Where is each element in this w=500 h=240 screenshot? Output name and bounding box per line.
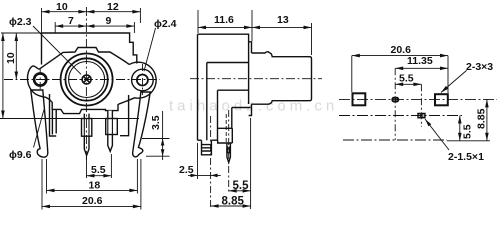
3.5 dim line [162,111,164,160]
side 8.85 arrows [211,204,219,208]
low slot pad [418,114,425,118]
2-1.5x1 leader [425,119,449,150]
dim row1 line 10/12 [42,11,141,13]
center contact pin [84,114,89,156]
2-3x3 leader [441,70,467,92]
5.5 fp dim line [395,83,421,85]
right ear hole outer circle [132,69,154,91]
fp 11.35 arrows [395,67,403,71]
svg-text:10: 10 [5,52,17,64]
side dim extensions [198,10,312,55]
5.5 dim line [87,175,112,177]
mid pad centerline [394,68,396,140]
front foot block with ribs [202,140,212,155]
pcb surface reference line [0,118,139,120]
fp 8.85 vertical dim line [486,99,488,140]
svg-text:5.5: 5.5 [233,180,250,192]
svg-text:7: 7 [68,15,74,27]
mid pad inner mark [395,98,397,101]
bracket left edge [41,33,43,65]
5.5 extensions [87,154,112,178]
svg-text:5.5: 5.5 [91,164,106,176]
20.6 dim line [42,205,141,207]
20.6 fp dim line [352,55,448,57]
barrel profile [252,52,312,104]
dim row1 extensions [42,8,141,33]
bracket arm top edge [232,107,251,109]
second pin [108,111,113,152]
20.6 fp extensions [352,56,448,93]
footprint axis 2 [339,115,462,117]
right pad 3x3 [435,94,448,105]
bracket arm step [218,108,233,144]
fp 20.6 arrows [352,54,360,58]
2.5 dim line [188,174,221,176]
low pad inner marks [420,114,423,118]
right ear outer lobe [118,62,156,104]
2.5 arrows outside [191,174,198,178]
phi9.6 dim line left [2,33,4,119]
11.35 fp dim line [395,67,448,69]
svg-text:5.5: 5.5 [399,73,414,85]
center pin sleeve [82,119,92,137]
side inner L [207,63,249,141]
svg-text:8.85: 8.85 [476,108,488,129]
svg-text:11.6: 11.6 [214,14,234,26]
mid slot pad [392,98,398,102]
low pad centerline [420,84,422,127]
svg-text:5.5: 5.5 [462,124,474,139]
svg-text:3.5: 3.5 [150,115,162,130]
left ear hole [34,73,46,85]
svg-text:9: 9 [106,15,112,27]
svg-text:2-3×3: 2-3×3 [466,61,493,73]
bottom ref line [447,140,490,142]
dimension lines thin [0,7,170,210]
front axis horizontal [4,79,160,81]
side 5.5 dim line [229,190,251,192]
18 arrows [47,189,55,193]
side centerline [190,78,322,80]
phi2.3 leader [33,26,81,74]
svg-text:2-1.5×1: 2-1.5×1 [448,151,484,163]
5.5 arrows [87,174,95,178]
3.5 dim extensions [142,139,170,157]
phi2.4 leader [144,28,156,71]
svg-text:ϕ9.6: ϕ9.6 [9,149,32,161]
bracket left edge below flange [50,94,57,136]
flange plate side [249,42,252,116]
side dim line 11.6/13 [198,26,312,28]
svg-text:2.5: 2.5 [179,164,194,176]
20.6 extensions [42,159,141,210]
svg-text:11.35: 11.35 [407,55,433,67]
housing left wall [52,109,56,134]
second pin inner edges in sleeve [108,119,113,135]
leader arrows [441,86,448,93]
left pad 3x3 [353,93,366,105]
side dims arrows [198,26,206,30]
phi9.6 leader [34,110,45,148]
barrel outer circle [61,54,113,106]
side 5.5 arrows [229,189,237,193]
18 extensions [47,159,138,194]
ear hole centerlines vertical [40,64,142,95]
front centerline vertical [85,7,87,160]
svg-text:18: 18 [89,179,101,191]
fp 5.5 vertical dim line [459,116,461,141]
rear pin barbs [227,147,230,154]
footprint axis 3 [343,139,447,141]
fp 5.5 arrows [395,83,403,87]
dim row2 line 7/9 [55,25,134,27]
20.6 arrows [42,205,50,209]
side 8.85 dim line [211,205,251,207]
flange outline with key bump [39,48,129,70]
front dims arrows [42,10,50,14]
footprint axis 1 [339,98,497,100]
pin hidden line [225,114,227,142]
left vertical dims arrows [1,33,5,41]
flange face extension [250,118,252,209]
left claw [31,90,48,157]
right claw [133,92,151,157]
barrel circle 2 [65,58,107,100]
left 10 vertical dim line [15,33,17,80]
second pin sleeve [106,119,118,135]
rear pin side [227,143,231,163]
3.5 arrows outside [161,139,165,146]
right ear hole inner circle [137,75,148,86]
bottom edge segments [198,139,218,141]
svg-text:taihaodz.com.cn: taihaodz.com.cn [169,98,338,115]
left extension at top [1,32,42,34]
center pin circle [82,75,91,84]
side body rectangle [198,34,249,140]
svg-text:13: 13 [277,14,289,26]
svg-text:10: 10 [56,1,68,13]
foot centerline [210,116,212,209]
barrel circle 3 [69,62,105,98]
pin centerline [228,110,230,194]
svg-text:ϕ2.3: ϕ2.3 [9,16,32,28]
center pin X spokes [84,77,90,83]
svg-text:8.85: 8.85 [222,196,245,208]
18 dim line [47,189,138,191]
fp vertical arrows [458,116,462,124]
bracket right edge below flange [120,95,129,136]
dim row2 extensions [55,22,134,33]
side inner line 2 [218,90,249,140]
housing bottom edge with notch [52,103,118,114]
bracket plate top edge [42,33,137,64]
2.5 left extension [197,143,199,179]
svg-text:20.6: 20.6 [82,195,103,207]
center pin inner edges in sleeve [84,119,89,137]
left ear outer lobe [27,66,52,103]
svg-text:ϕ2.4: ϕ2.4 [154,18,177,30]
svg-text:12: 12 [107,1,119,13]
